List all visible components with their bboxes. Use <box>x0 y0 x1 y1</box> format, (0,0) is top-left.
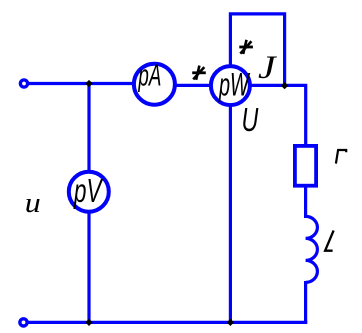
asterisk at wattmeter current terminal <box>192 66 206 80</box>
wire bottom rail <box>28 321 307 324</box>
voltmeter pV <box>69 172 109 212</box>
ammeter pA <box>134 58 175 105</box>
junction node at wattmeter loop / rail <box>281 82 288 89</box>
wire voltmeter branch vertical <box>87 84 90 323</box>
svg-text:pA: pA <box>138 58 162 93</box>
svg-text:U: U <box>242 101 259 138</box>
resistor r (box) <box>295 146 316 186</box>
svg-text:pW: pW <box>218 67 250 103</box>
wire top rail right segment with corner down to resistor <box>154 85 306 146</box>
wire resistor to inductor <box>304 184 307 218</box>
wire wattmeter current branch down <box>229 86 232 323</box>
junction node at voltmeter bottom <box>85 319 92 326</box>
wire inductor to bottom rail <box>304 281 307 322</box>
label r (resistor value) <box>336 150 346 164</box>
wattmeter pW <box>211 66 251 105</box>
svg-text:J: J <box>258 50 277 86</box>
terminal top left <box>20 80 27 87</box>
svg-text:pV: pV <box>73 172 103 209</box>
svg-text:u: u <box>25 188 41 219</box>
junction node at voltmeter top <box>85 80 92 87</box>
wire top rail left segment <box>28 82 154 85</box>
terminal bottom left <box>20 319 27 326</box>
junction node at wattmeter branch bottom <box>227 319 234 326</box>
asterisk at wattmeter voltage terminal <box>239 40 253 54</box>
inductor L (coil) <box>306 216 318 282</box>
wire wattmeter voltage-coil loop <box>230 14 284 86</box>
label L (inductor value) <box>325 231 334 251</box>
